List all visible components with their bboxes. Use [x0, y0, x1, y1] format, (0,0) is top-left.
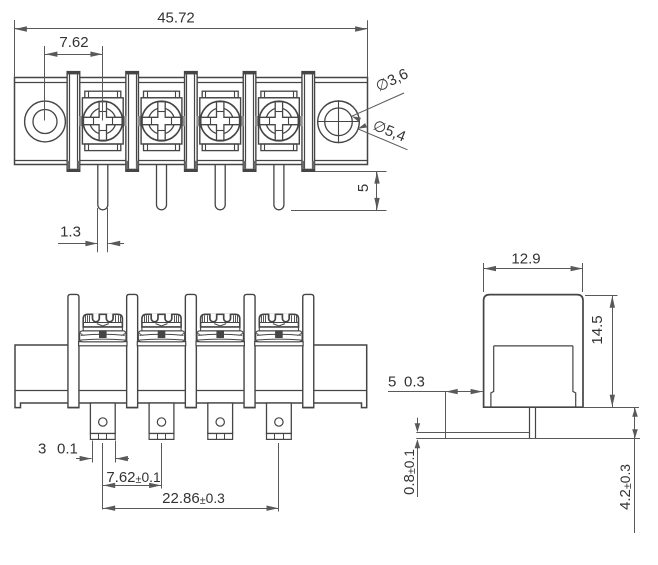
top view pin 4 [274, 165, 284, 210]
front view solder tab 1 [90, 403, 115, 439]
front view solder tab 2 [149, 403, 174, 439]
svg-text:12.9: 12.9 [511, 251, 540, 268]
front view barrier post 4 [244, 294, 255, 407]
side view body outline [484, 295, 583, 408]
dimension 12.9 extension lines [484, 263, 583, 292]
label diameter 3,6 leader [352, 93, 404, 122]
top view screw terminal 2 [138, 91, 185, 150]
svg-text:5: 5 [355, 184, 372, 192]
top view barrier wall 2 [126, 72, 139, 172]
front view screw unit 2 [137, 314, 185, 346]
top view screw terminal 4 [255, 91, 302, 150]
label diameter 5,4 text [370, 117, 408, 145]
side view pin reference line upper [416, 432, 529, 434]
dimension 7.62 extension lines [45, 46, 103, 121]
dimension 45.72 extension lines [15, 20, 368, 78]
dimension 5 0.3 extension line [445, 392, 447, 439]
top view pin 3 [215, 165, 225, 210]
top view barrier wall 3 [185, 72, 198, 172]
dimension 5 (pin length) [355, 171, 380, 210]
dimension 4.2 0.3 [617, 407, 638, 533]
top view barrier wall 5 [302, 72, 315, 172]
dimension 14.5 extension line [585, 295, 618, 297]
front view screw unit 4 [255, 314, 303, 346]
side view body bottom reference line [583, 407, 639, 409]
top view body outline [15, 78, 368, 165]
dimension 3 0.1 extension lines [93, 441, 116, 463]
front view solder tab 3 [208, 403, 233, 439]
label diameter 5,4 leader [358, 123, 408, 150]
top view screw terminal 1 [79, 91, 126, 150]
dimension 5 0.3 [388, 373, 483, 394]
dimension 45.72 [15, 10, 368, 32]
dimension 7.62 0.1 [103, 469, 162, 488]
svg-text:1.3: 1.3 [60, 224, 81, 241]
front view body outline [15, 345, 367, 408]
top view right mounting hole [317, 100, 360, 143]
dimension 0.8 0.1 leaders [415, 418, 421, 497]
dimension 3 0.1 [38, 441, 129, 462]
svg-text:22.86±0.3: 22.86±0.3 [162, 490, 225, 507]
top view screw terminal 3 [197, 91, 244, 150]
svg-text:0.1: 0.1 [57, 441, 78, 458]
dimension 14.5 [589, 295, 615, 407]
top view left mounting hole [25, 101, 66, 142]
dimension 22.86 0.3 [103, 490, 279, 511]
side view pin [530, 407, 536, 439]
label diameter 3,6 text [373, 65, 411, 95]
dimension 1.3 extension lines [98, 208, 108, 252]
dimension 0.8 0.1 text [401, 449, 418, 495]
svg-text:7.62±0.1: 7.62±0.1 [106, 469, 160, 486]
top view barrier wall 4 [243, 72, 256, 172]
front view barrier post 1 [68, 294, 79, 407]
side view pin reference line lower [416, 438, 640, 440]
svg-text:45.72: 45.72 [157, 10, 195, 27]
front view screw unit 3 [196, 314, 244, 346]
top view pin 1 [98, 165, 108, 210]
front view barrier post 2 [127, 294, 138, 407]
dimension 7.62 [45, 34, 103, 57]
svg-text:5: 5 [388, 373, 396, 390]
front view solder tab 4 [267, 403, 292, 439]
dimension 5 reference lines [291, 172, 387, 211]
dimension 22.86 0.3 extension line [278, 443, 280, 512]
top view barrier wall 1 [67, 72, 80, 172]
dimension 1.3 [58, 224, 124, 247]
svg-text:14.5: 14.5 [589, 315, 606, 344]
svg-text:3: 3 [38, 441, 46, 458]
side view inner cavity profile [491, 346, 576, 407]
front view barrier post 3 [185, 294, 196, 407]
dimension 12.9 [484, 251, 583, 272]
svg-text:7.62: 7.62 [59, 34, 88, 51]
svg-text:0.3: 0.3 [404, 373, 425, 390]
front view barrier post 5 [303, 294, 314, 407]
top view pin 2 [157, 165, 167, 210]
front view screw unit 1 [79, 314, 127, 346]
dimension 7.62 0.1 extension lines [103, 443, 162, 510]
